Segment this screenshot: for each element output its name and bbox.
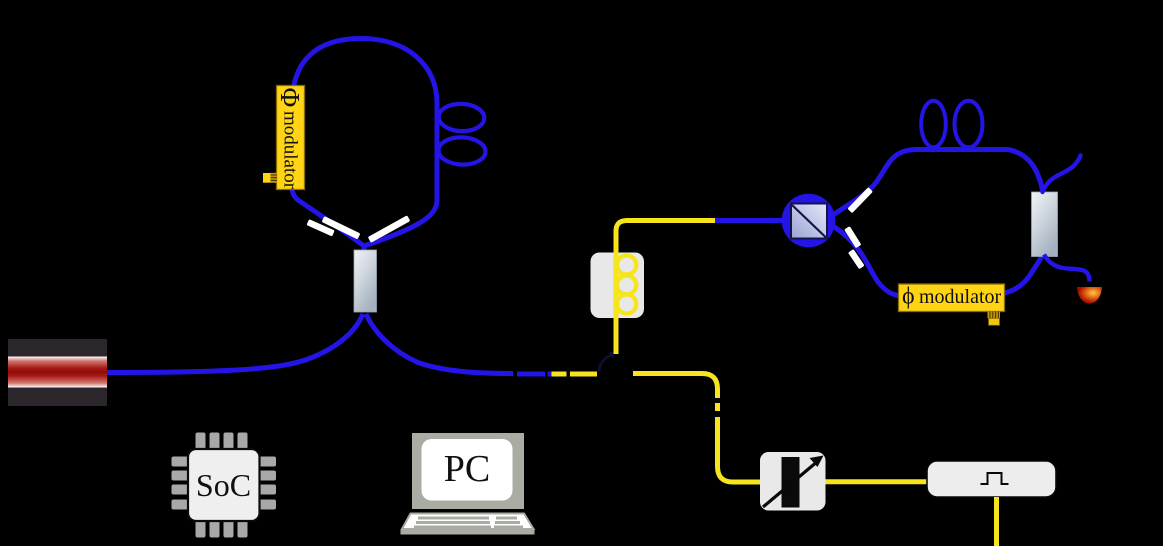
- wire: yellow dash 2: [570, 372, 597, 377]
- phase modulator right: [899, 284, 1005, 312]
- attenuator: [760, 452, 826, 511]
- splice mark right arm: [368, 215, 411, 243]
- svg-text:ϕ: ϕ: [902, 284, 915, 310]
- svg-text:SoC: SoC: [196, 467, 251, 503]
- left coil loops: [438, 103, 485, 132]
- wire: to detector: [1044, 255, 1090, 282]
- right loop upper arm: [833, 150, 1043, 216]
- left loop (blue fiber ring): [292, 39, 437, 247]
- connector left modulator: [263, 173, 277, 183]
- svg-text:modulator: modulator: [919, 286, 1002, 308]
- wire: yellow to attenuator: [633, 374, 718, 399]
- svg-text:modulator: modulator: [280, 111, 301, 190]
- wire: pulse generator output: [994, 497, 999, 546]
- left loop stem: [362, 243, 367, 251]
- wire: laser to splitter (blue fiber): [107, 314, 363, 373]
- splice mark lower arm 2: [848, 249, 865, 269]
- splice mark left arm lower: [306, 219, 334, 236]
- delay coil box: [591, 253, 645, 319]
- detector (half dome): [1077, 287, 1102, 304]
- SoC chip: [172, 433, 277, 538]
- wire: S-curve out top: [1043, 156, 1081, 193]
- wire: yellow dash 1: [552, 372, 567, 377]
- splice mark lower arm 1: [844, 226, 861, 248]
- svg-text:Φ: Φ: [275, 88, 305, 108]
- wire: blue dash: [517, 372, 545, 377]
- right loop lower arm: [833, 226, 1042, 297]
- splice mark left arm upper: [322, 216, 361, 239]
- wire: blue sliver dash: [548, 372, 552, 377]
- circulator (blue circle with beamsplitter cube): [782, 194, 836, 248]
- coil rings: [617, 256, 636, 275]
- wire: splitter lower-right branch: [366, 314, 513, 374]
- right coupler (gray box): [1032, 192, 1058, 257]
- junction hop arc: [599, 355, 613, 372]
- splice mark upper arm: [847, 187, 873, 213]
- wire: blue into circulator: [715, 218, 790, 223]
- wire: yellow through coil: [616, 221, 715, 355]
- connector right modulator: [988, 312, 1001, 326]
- wire: attenuator to pulse generator: [826, 479, 928, 484]
- PC laptop: [401, 433, 535, 535]
- phase modulator left (box): [275, 86, 305, 190]
- laser source: [8, 339, 107, 406]
- splitter (central coupler): [354, 250, 377, 312]
- pulse generator: [927, 461, 1056, 497]
- right coil loops: [921, 101, 946, 148]
- svg-text:PC: PC: [444, 448, 490, 490]
